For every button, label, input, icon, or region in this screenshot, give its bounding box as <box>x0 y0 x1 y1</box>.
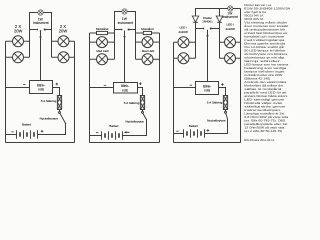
svg-text:relä: relä <box>204 89 210 93</box>
svg-text:2x20W: 2x20W <box>179 30 189 34</box>
svg-text:2x20W: 2x20W <box>226 27 236 31</box>
wire outer rail left C1 <box>5 41 7 142</box>
svg-text:Blink-: Blink- <box>203 84 211 88</box>
svg-text:Denna gamla använda: Denna gamla använda <box>244 42 286 46</box>
lamp LED1 C2 <box>90 37 115 48</box>
svg-text:20W: 20W <box>14 29 23 34</box>
battery B1 C1 <box>17 130 38 139</box>
lamp instrument C3 <box>228 6 233 11</box>
wire switch pole down C3 <box>207 30 209 82</box>
svg-text:5 A Säkring: 5 A Säkring <box>41 99 57 103</box>
svg-text:Nyckelbrytare: Nyckelbrytare <box>125 119 144 123</box>
label minus C3 <box>190 84 192 86</box>
diode D2 C3 <box>216 16 223 29</box>
switch key C2 <box>142 110 147 120</box>
wire battery minus lead C3 <box>174 133 184 135</box>
svg-text:parallellt med LED för att: parallellt med LED för att <box>244 91 286 95</box>
svg-text:LED samtidigt genom: LED samtidigt genom <box>244 98 285 102</box>
switch turn-signal C1 <box>30 29 52 32</box>
label battery plus C3 <box>207 129 210 132</box>
svg-text:annars blinkar båda sidors: annars blinkar båda sidors <box>244 94 288 98</box>
svg-text:20W: 20W <box>59 29 68 34</box>
svg-text:säkerligt ström genom: säkerligt ström genom <box>244 105 286 109</box>
svg-text:Vid elritning måste dioder: Vid elritning måste dioder <box>244 21 287 25</box>
svg-text:Elis Rimska 2011-06-12: Elis Rimska 2011-06-12 <box>244 138 274 142</box>
svg-text:Lämpliga motstånd är 2st: Lämpliga motstånd är 2st <box>244 112 284 116</box>
lamp instrument C2 <box>122 9 127 14</box>
svg-text:Dioder kan var t.ex.: Dioder kan var t.ex. <box>244 3 272 7</box>
wire top lamp loop C2 <box>115 12 136 30</box>
svg-text:Används den elektroniska: Används den elektroniska <box>244 80 287 84</box>
battery B1 C3 <box>184 129 205 138</box>
lamp LED3 C3 <box>220 37 241 48</box>
lamp LED3 C2 <box>136 37 160 48</box>
wire key switch to battery plus C3 <box>205 118 228 133</box>
svg-text:90C03 94V 1A: 90C03 94V 1A <box>244 14 263 18</box>
wire inner rail left C2 <box>114 30 116 60</box>
svg-text:13 Ohm/50W på varje sida: 13 Ohm/50W på varje sida <box>244 126 285 130</box>
wire outer rail left C2 <box>89 33 91 143</box>
svg-text:E1W 50-1N5408 1200V/3A: E1W 50-1N5408 1200V/3A <box>244 7 290 11</box>
switch key C3 <box>225 110 228 119</box>
wire relay minus C2 <box>90 87 114 89</box>
svg-text:instrument: instrument <box>222 15 237 19</box>
svg-text:blinkreläet då måste det: blinkreläet då måste det <box>244 84 283 88</box>
fuse F1 C3 <box>223 96 227 110</box>
notes text column <box>244 3 290 142</box>
lamp L2 rear-left C1 <box>6 52 30 63</box>
wire relay minus C1 <box>6 87 30 89</box>
wire inner rail right C1 <box>51 30 53 58</box>
diode D1 C3 <box>192 16 199 29</box>
svg-text:lamp sönder.: lamp sönder. <box>244 59 282 63</box>
svg-text:(Biltema 42-140): (Biltema 42-140) <box>244 77 270 81</box>
label lamp value 2 X 20W left <box>14 24 23 34</box>
svg-text:instrument: instrument <box>33 21 48 25</box>
lamp L1 front-left C1 <box>6 36 30 47</box>
relay flasher Blink-rela C3 <box>196 82 219 95</box>
wire battery minus lead C1 <box>6 134 17 136</box>
svg-text:utbyteslampor ge relä någt: utbyteslampor ge relä någt <box>244 56 284 60</box>
wire switch pole down C1 <box>40 31 42 81</box>
lamp instrument C1 <box>38 10 43 15</box>
svg-text:blinkrelä väljer ovan: blinkrelä väljer ovan <box>244 101 283 105</box>
svg-text:åven monteras över kontakt: åven monteras över kontakt <box>244 24 288 28</box>
svg-text:5 A Säkring: 5 A Säkring <box>124 101 140 105</box>
svg-text:Batteri: Batteri <box>22 123 31 127</box>
label plus C2 <box>139 82 142 85</box>
wire key switch to battery plus C2 <box>123 119 147 136</box>
switch turn-signal C3 <box>196 28 220 30</box>
wire relay minus C3 <box>174 87 196 89</box>
arrow battery plus C2 <box>124 131 127 133</box>
svg-text:strömbrytare om blinkers: strömbrytare om blinkers <box>244 52 288 56</box>
wire inner rail left C3 <box>195 29 197 59</box>
wire outer rail left C3 <box>173 42 175 142</box>
svg-text:Motstånd: Motstånd <box>141 27 154 31</box>
svg-text:parallellkopplade eller 1st: parallellkopplade eller 1st <box>244 122 287 126</box>
svg-text:(ex. Elfa 60-745-75). OBS: (ex. Elfa 60-745-75). OBS <box>244 119 285 123</box>
label 1W instrument C1 <box>33 17 48 25</box>
label minus C2 <box>104 84 106 86</box>
arrow current direction C2 <box>123 36 125 39</box>
lamp LED1 C3 <box>174 37 196 48</box>
wire relay plus to fuse C3 <box>219 88 226 96</box>
svg-text:(ex 2 st60,3R 50-145-75): (ex 2 st60,3R 50-145-75) <box>244 129 282 133</box>
svg-text:belastning som vanliga: belastning som vanliga <box>244 66 287 70</box>
lamp LED4 C2 <box>136 54 160 65</box>
svg-text:Blink-: Blink- <box>37 83 45 87</box>
wire inner rail left C1 <box>29 30 31 58</box>
resistor R1 C2 <box>90 31 115 34</box>
wire top line C3 <box>196 9 241 17</box>
svg-text:enbart fast blinkersljus en: enbart fast blinkersljus en <box>244 31 288 35</box>
wire relay plus to fuse C2 <box>138 88 143 96</box>
switch turn-signal C2 <box>115 29 136 31</box>
arrow current direction C1 <box>39 37 41 40</box>
label battery minus C2 <box>96 132 98 134</box>
wire switch pole down C2 <box>124 31 126 83</box>
fuse F1 C2 <box>140 96 144 110</box>
svg-text:kontaktat och motsvarar: kontaktat och motsvarar <box>244 35 284 39</box>
svg-text:Med LED: Med LED <box>96 49 109 53</box>
svg-text:Om LA blinkar snabbt går: Om LA blinkar snabbt går <box>244 45 284 49</box>
svg-text:50 LED-lampor fel blinkar: 50 LED-lampor fel blinkar <box>244 49 285 53</box>
svg-text:instrumentlampan.: instrumentlampan. <box>244 108 281 112</box>
svg-text:LED-lampor som har samma: LED-lampor som har samma <box>244 63 289 67</box>
wire bottom return C3 <box>174 142 241 144</box>
label plus C1 <box>56 83 59 86</box>
svg-text:5 A Säkring: 5 A Säkring <box>207 100 223 104</box>
wire key switch to battery plus C1 <box>38 123 66 134</box>
lamp L4 rear-right C1 <box>52 52 75 63</box>
label Dioder 1N4001 <box>202 16 213 24</box>
svg-text:Nyckelbrytare: Nyckelbrytare <box>40 116 59 120</box>
svg-text:1N4001: 1N4001 <box>202 20 213 24</box>
switch key C1 <box>59 110 67 125</box>
resistor R2 C2 <box>136 31 160 34</box>
svg-text:så omkopplarvänster blir: så omkopplarvänster blir <box>244 28 285 32</box>
battery B1 C2 <box>102 131 123 140</box>
wire outer rail right C3 <box>240 9 242 143</box>
relay flasher Blink-rela C2 <box>114 83 138 94</box>
svg-text:90C04 400V 3A: 90C04 400V 3A <box>244 17 263 21</box>
lamp LED4 C3 <box>220 53 241 64</box>
wire inner rail right C2 <box>135 30 137 60</box>
relay flasher Blink-rela C1 <box>30 81 53 94</box>
label minus C1 <box>23 84 25 86</box>
label battery minus C1 <box>11 131 13 133</box>
label battery minus C3 <box>176 130 178 132</box>
svg-text:6,8 Ohm/10W på varje sida: 6,8 Ohm/10W på varje sida <box>244 115 289 119</box>
svg-text:lampor behöver inget: lampor behöver inget <box>244 70 284 74</box>
arrow current direction C3 <box>206 35 208 38</box>
label 1W instrument C2 <box>118 17 133 25</box>
label lamp LED / 2x20W left C3 <box>179 26 189 34</box>
svg-text:motstånd eller dra 20W: motstånd eller dra 20W <box>244 73 283 77</box>
lamp L3 front-right C1 <box>52 36 75 47</box>
lamp LED2 C2 <box>90 54 115 65</box>
svg-text:relä: relä <box>122 88 128 92</box>
svg-text:Motstånd: Motstånd <box>96 27 109 31</box>
svg-text:eller Kjell & Co: eller Kjell & Co <box>244 10 267 14</box>
wire inner rail right C3 <box>219 29 221 59</box>
svg-text:sättas in motstånd: sättas in motstånd <box>244 87 282 91</box>
wire top lamp loop C1 <box>30 13 52 30</box>
svg-text:med indikeringslampa: med indikeringslampa <box>244 38 285 42</box>
wire relay plus to fuse C1 <box>53 88 60 96</box>
svg-text:relä: relä <box>38 88 44 92</box>
wire bottom return C1 <box>6 142 75 144</box>
label lamp value 2 X 20W right <box>59 24 68 34</box>
lamp LED2 C3 <box>174 53 196 64</box>
svg-text:Batteri: Batteri <box>109 124 118 128</box>
svg-text:instrument: instrument <box>118 21 133 25</box>
wire bottom return C2 <box>90 142 160 144</box>
svg-text:Batteri: Batteri <box>189 124 198 128</box>
wire battery minus lead C2 <box>90 135 102 137</box>
label 1W instrument C3 <box>222 11 237 19</box>
wire outer rail right C2 <box>159 33 161 143</box>
wire outer rail right C1 <box>74 41 76 142</box>
label plus C3 <box>221 83 224 86</box>
svg-text:Nyckelbrytare: Nyckelbrytare <box>207 119 226 123</box>
fuse F1 C1 <box>57 96 61 110</box>
label lamp LED / 2x20W right C3 <box>226 23 236 31</box>
svg-text:Med LED: Med LED <box>142 49 155 53</box>
label battery plus C1 <box>41 130 44 133</box>
